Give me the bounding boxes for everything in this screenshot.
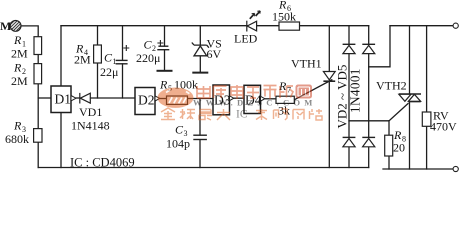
svg-text:470V: 470V — [430, 120, 457, 134]
svg-text:R: R — [13, 119, 22, 133]
svg-text:VTH1: VTH1 — [291, 57, 322, 71]
svg-text:LED: LED — [234, 32, 258, 46]
svg-text:VTH2: VTH2 — [376, 79, 407, 93]
svg-text:R: R — [13, 61, 22, 75]
svg-text:D1: D1 — [55, 92, 72, 107]
svg-text:22μ: 22μ — [100, 65, 118, 79]
svg-text:IC: IC — [236, 109, 248, 121]
svg-text:150k: 150k — [272, 10, 296, 24]
svg-text:M: M — [0, 19, 11, 33]
svg-text:2M: 2M — [11, 47, 28, 61]
svg-text:WWW.DZSC.COM: WWW.DZSC.COM — [193, 98, 317, 108]
svg-text:2M: 2M — [74, 53, 91, 67]
svg-text:220μ: 220μ — [136, 51, 160, 65]
svg-text:20: 20 — [393, 141, 405, 155]
svg-text:6V: 6V — [207, 47, 222, 61]
svg-text:104p: 104p — [166, 137, 190, 151]
svg-text:1N4001: 1N4001 — [348, 68, 363, 113]
svg-text:680k: 680k — [5, 132, 29, 146]
svg-text:VD1: VD1 — [79, 105, 102, 119]
svg-text:D2: D2 — [138, 93, 155, 108]
svg-text:IC : CD4069: IC : CD4069 — [70, 156, 135, 170]
svg-text:1N4148: 1N4148 — [71, 119, 110, 133]
svg-text:R: R — [13, 33, 22, 47]
svg-text:2M: 2M — [11, 74, 28, 88]
